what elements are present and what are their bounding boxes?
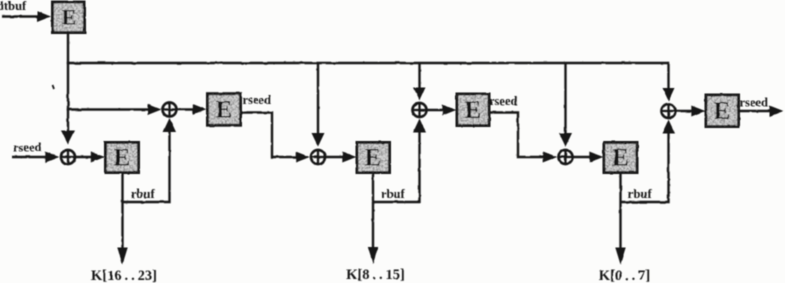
svg-text:rseed: rseed [243,93,272,107]
wire E T2 rseed output to XOR B3 [489,113,557,163]
svg-text:K[16 . . 23]: K[16 . . 23] [91,268,157,283]
svg-text:E: E [612,145,629,172]
wire XOR B3 to E B3 [573,152,603,163]
wire bus drop to XOR B3 [559,63,572,147]
wire rseed input arrow into XOR B1 [12,152,59,163]
wire XOR T1 to E T1 [177,104,207,115]
xor XOR B3 [559,150,573,164]
wire E T1 rseed output to XOR B2 [241,113,310,163]
wire branch to XOR T1 [67,104,162,115]
svg-text:E: E [365,145,382,172]
svg-text:E: E [62,5,77,30]
wire bus end drop to XOR TF [663,62,675,101]
svg-text:E: E [114,145,131,172]
xor XOR TF [662,104,676,118]
svg-text:K[8 . . 15]: K[8 . . 15] [346,267,405,283]
svg-text:dtbuf: dtbuf [0,0,27,13]
wire rbuf feedback 2 to XOR T2 [373,119,426,203]
xor XOR T1 [163,103,177,117]
wire bus drop to XOR T2 [414,63,426,101]
wire E B1 output down to K[16..23] [117,173,127,265]
xor XOR B1 [61,150,75,164]
svg-text:rseed: rseed [489,94,518,108]
E-box E B1 [106,143,139,173]
speck mark [53,85,55,89]
wire E0 output down to XOR B1 [61,33,75,145]
svg-text:rseed: rseed [13,141,42,155]
E-box E T2 [457,94,489,126]
xor XOR T2 [413,103,427,117]
svg-text:E: E [714,98,731,125]
svg-text:E: E [216,97,233,124]
wire XOR TF to E TF [676,106,705,117]
E-box E0 (dtbuf) [53,2,85,33]
E-box E TF [706,95,739,127]
wire bus drop to XOR B2 [312,63,325,147]
svg-text:rbuf: rbuf [628,187,652,201]
svg-text:K[0 . . 7]: K[0 . . 7] [599,268,650,283]
svg-text:E: E [465,97,482,124]
wire long top bus [67,62,670,64]
svg-text:rseed: rseed [740,96,769,110]
wire E B3 output down to K[0..7] [615,173,625,265]
wire dtbuf input arrow into E0 [2,11,51,22]
wire XOR B2 to E B2 [326,152,357,163]
E-box E B2 [357,143,390,173]
wire rbuf feedback 3 to XOR TF [621,120,676,203]
svg-text:rbuf: rbuf [381,187,405,201]
E-box E T1 [208,94,241,126]
wire XOR B1 to E B1 [76,152,105,163]
xor XOR B2 [311,150,325,164]
wire E TF rseed output arrow [739,106,784,117]
E-box E B3 [604,143,637,173]
wire rbuf feedback 1 to XOR T1 [123,118,177,202]
wire E B2 output down to K[8..15] [368,173,378,265]
svg-text:rbuf: rbuf [131,187,155,201]
wire XOR T2 to E T2 [427,105,456,116]
